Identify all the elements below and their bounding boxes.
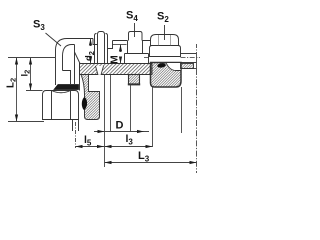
tube wall hatched strip [181,64,194,69]
stud thread crest line [113,40,151,42]
tube end / L3 extension [196,44,198,53]
collar washer stack [95,35,108,64]
l2 dimension line [30,58,32,91]
body right wall [79,64,81,91]
extension line L2 bottom [8,121,44,123]
inner tube end step [63,71,71,85]
leader S2 [164,25,166,40]
svg-text:D: D [116,120,124,132]
cutting ring blob in bean [157,63,166,69]
nut S3 crown arc [52,91,71,93]
tube lower line [181,62,197,64]
L3 dimension line [105,162,197,164]
collar step to stud [108,41,113,49]
leader S3 [46,33,62,46]
L3 arrows [105,161,112,164]
L2 arrows [15,58,18,65]
l2 arrows [29,58,32,65]
S4 lower section square (hatched) [129,75,140,85]
D arrows (both pointing right) [98,130,105,133]
extension line top (y57.5) [8,57,56,59]
hatched wall slab below band [81,75,100,120]
d2 arrows [89,39,92,46]
L2 dimension line [16,58,18,122]
S2 lower hatched section (bean) [151,63,182,88]
elbow outer contour [56,39,94,86]
d2 dimension line [90,39,92,64]
arrowheads [15,39,197,165]
nut S3 outline [43,91,79,120]
leader S4 [134,23,136,37]
elbow inner contour [63,45,75,71]
S2 crown face lines [159,35,171,46]
hatched body section band [80,64,153,75]
l5 + l3 dimension line [76,146,153,148]
l3 arrows [105,145,112,148]
union nut S2 base [150,46,181,57]
M arrows [119,45,122,52]
elbow top edge to collar [93,39,98,45]
centerline (axis) dash-dot [144,57,200,59]
white pocket in bean top-right [166,63,181,71]
S4 hex body [125,41,149,64]
stud thread root line [113,44,127,46]
union nut S2 crown [151,35,179,46]
D dimension line [94,131,149,133]
stubs below nut [73,120,79,132]
vertical leg right wall [74,45,76,85]
wall slab teardrop (cutting ring blob) [82,97,87,110]
svg-text:M: M [109,55,121,64]
ferrule (dark band) [54,85,79,90]
S4 hex crown [129,32,143,41]
l5 dash-dot extension [75,122,77,148]
l5 arrows [76,145,83,148]
extension line l2 bottom [26,90,43,92]
white notch in band [96,66,104,75]
elbow body chamfer diagonal [75,52,81,64]
tube right: top line [181,53,197,55]
dimension extension verticals [105,75,182,168]
M dimension line [120,45,122,64]
nut S3 face lines [52,91,71,120]
